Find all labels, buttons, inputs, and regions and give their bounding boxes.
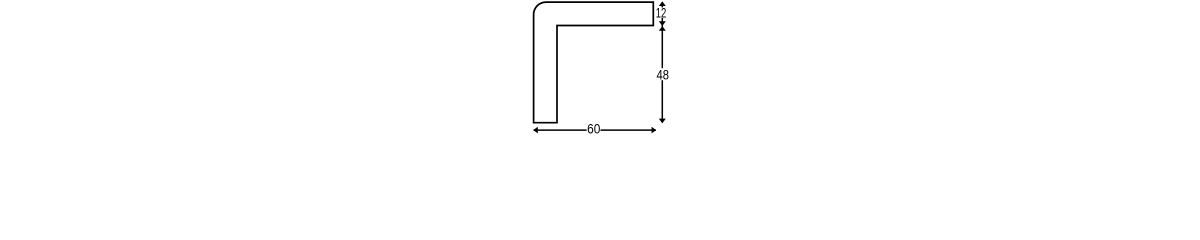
- arrow right (60): [652, 127, 657, 134]
- arrow down (48 bottom): [659, 119, 666, 124]
- label 12 background: [656, 7, 668, 18]
- arrow down (12 bottom): [659, 21, 666, 26]
- dimension line 48 (vertical): [661, 26, 663, 123]
- label 60 background: [587, 124, 601, 134]
- svg-text:60: 60: [587, 121, 600, 134]
- arrow up (12 top): [659, 1, 666, 6]
- svg-text:12: 12: [656, 5, 667, 21]
- svg-text:48: 48: [656, 67, 668, 82]
- arrow left (60): [533, 127, 538, 134]
- dimension line 12 (vertical): [661, 2, 663, 26]
- L-profile outline: [534, 2, 654, 123]
- arrow up (48 top): [659, 26, 666, 31]
- dimension line 60 (horizontal): [534, 129, 657, 131]
- label 48 background: [656, 68, 670, 80]
